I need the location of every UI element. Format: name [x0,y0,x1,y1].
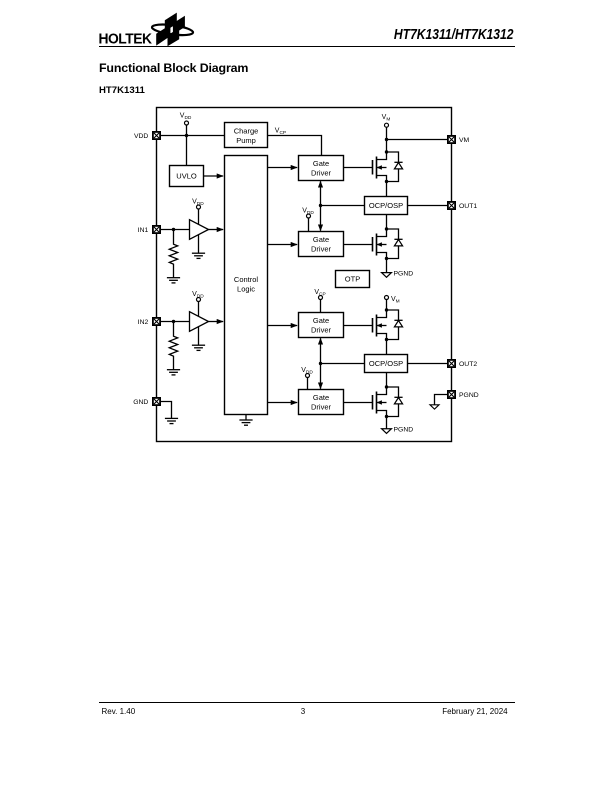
svg-text:Gate: Gate [313,235,329,244]
svg-text:VCP: VCP [314,289,325,298]
svg-text:Charge: Charge [234,126,259,135]
svg-text:VM: VM [391,296,400,305]
svg-text:Gate: Gate [313,316,329,325]
svg-text:VM: VM [382,114,391,123]
svg-text:VDD: VDD [192,198,204,207]
svg-text:Driver: Driver [311,326,332,335]
svg-text:UVLO: UVLO [176,172,197,181]
svg-text:Driver: Driver [311,403,332,412]
svg-text:Gate: Gate [313,393,329,402]
svg-text:PGND: PGND [459,392,479,399]
svg-text:Driver: Driver [311,169,332,178]
svg-text:PGND: PGND [394,427,414,434]
svg-text:Driver: Driver [311,245,332,254]
svg-text:Pump: Pump [236,136,256,145]
svg-text:GND: GND [133,399,148,406]
svg-text:VDD: VDD [192,291,204,300]
svg-text:HOLTEK: HOLTEK [99,32,153,48]
svg-text:IN1: IN1 [138,227,149,234]
svg-text:OCP/OSP: OCP/OSP [369,359,403,368]
svg-text:VDD: VDD [301,367,313,376]
svg-text:Gate: Gate [313,159,329,168]
svg-text:VM: VM [459,137,470,144]
svg-text:OUT1: OUT1 [459,203,477,210]
svg-text:VCP: VCP [275,127,286,136]
svg-text:PGND: PGND [394,270,414,277]
svg-text:VDD: VDD [302,207,314,216]
svg-text:OUT2: OUT2 [459,361,477,368]
svg-text:Control: Control [234,275,259,284]
svg-text:VDD: VDD [134,133,148,140]
svg-text:VDD: VDD [180,112,192,121]
svg-text:OCP/OSP: OCP/OSP [369,201,403,210]
svg-text:Logic: Logic [237,284,255,293]
svg-text:OTP: OTP [345,275,360,284]
svg-text:IN2: IN2 [138,319,149,326]
